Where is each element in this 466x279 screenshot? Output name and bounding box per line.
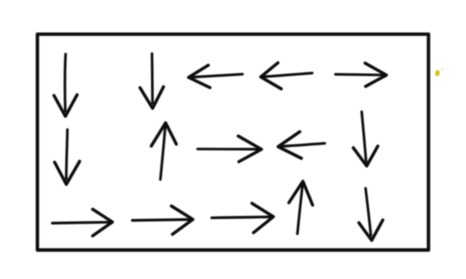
- arrow A9 left (middle): [278, 132, 325, 159]
- arrow A3 down (top-middle): [140, 54, 164, 109]
- yellow ink speck (outside right border): [435, 68, 443, 76]
- arrow A2 down (left, second): [55, 130, 80, 185]
- border rectangle: [37, 34, 428, 250]
- arrow A14 right (bottom row, second): [132, 206, 193, 234]
- arrow A7 right (top-right): [336, 63, 387, 86]
- arrow A1 down (top-left): [54, 54, 77, 116]
- arrow A15 right (bottom row, third): [212, 203, 274, 232]
- arrow A11 down (right, lower): [359, 188, 383, 240]
- arrow A8 right (middle): [198, 136, 262, 162]
- arrow A13 right (bottom row, first): [52, 209, 112, 236]
- arrow A10 down (right, upper): [353, 112, 378, 166]
- arrow A6 left (top row, second): [261, 63, 313, 89]
- arrow A12 up (bottom-middle): [289, 181, 313, 234]
- arrow A5 left (top row, first): [189, 65, 243, 87]
- arrow A4 up (middle-left): [151, 123, 176, 180]
